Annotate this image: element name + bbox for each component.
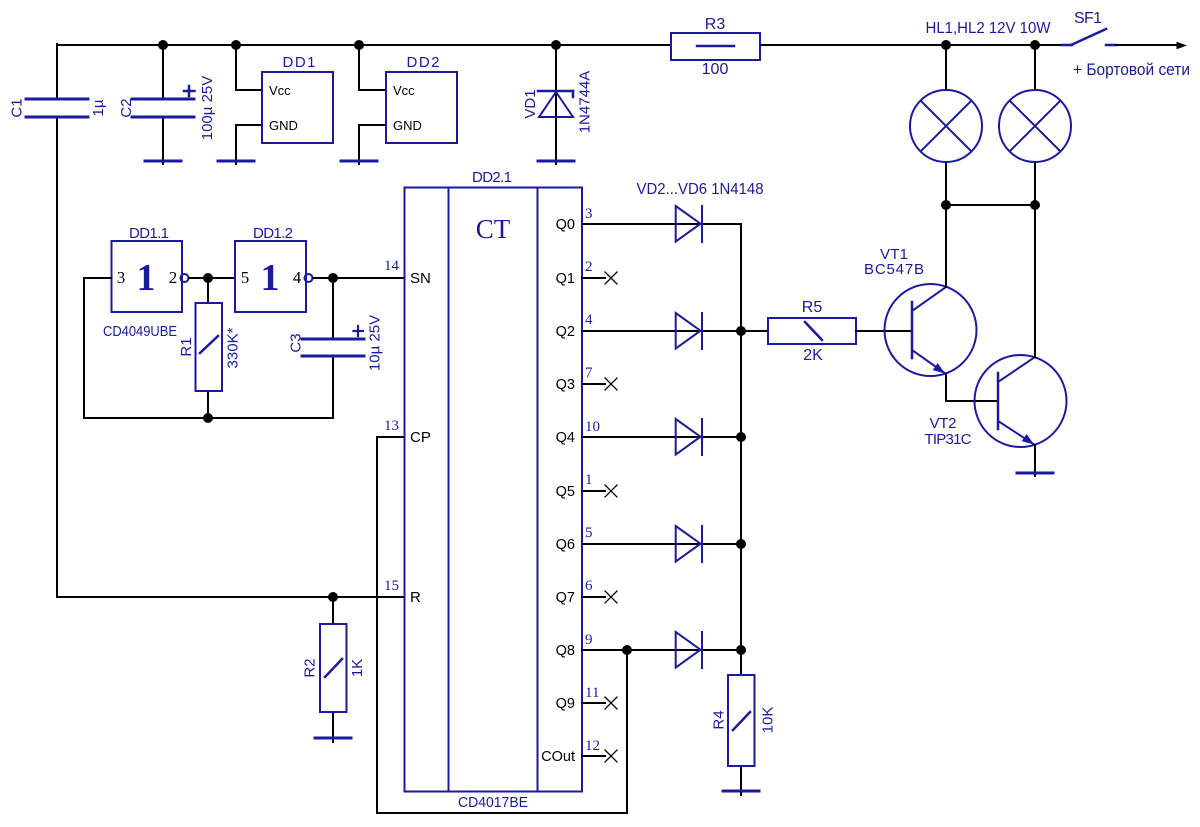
svg-text:Q7: Q7 (556, 590, 575, 606)
node junction C2 top (158, 40, 168, 50)
lamp HL2 (999, 90, 1071, 162)
zener diode VD1 (522, 71, 594, 134)
svg-text:9: 9 (585, 632, 593, 648)
svg-text:R1: R1 (178, 337, 195, 356)
diode VD5 (676, 526, 702, 562)
svg-text:13: 13 (384, 418, 399, 434)
node junction DD2 Vcc (354, 40, 364, 50)
node junction bus Q6 (736, 539, 746, 549)
inverter DD1.1 (103, 225, 189, 340)
node junction bus Q2 (736, 326, 746, 336)
ground (DD2) (341, 160, 377, 163)
wire top rail right (760, 44, 1063, 46)
svg-text:R4: R4 (711, 710, 728, 729)
IC DD2 power box (386, 54, 457, 143)
ground (VT2) (1017, 472, 1053, 475)
node junction lamp tie right (1030, 200, 1040, 210)
capacitor C1 (9, 98, 108, 117)
svg-text:Q9: Q9 (556, 696, 575, 712)
svg-text:12: 12 (585, 738, 600, 754)
wire VT1 collector (945, 205, 947, 287)
wire VT1 emitter to VT2 base (946, 374, 998, 401)
wire R reset rail (57, 596, 405, 598)
node junction bus Q8 (736, 645, 746, 655)
no-connect COut (582, 750, 617, 762)
lamp HL1 (910, 90, 982, 162)
svg-text:100µ 25V: 100µ 25V (199, 76, 216, 141)
capacitor C3 (288, 315, 384, 371)
svg-text:Q5: Q5 (556, 484, 575, 500)
wire left rail lower (56, 117, 58, 597)
svg-text:GND: GND (269, 118, 298, 133)
svg-text:Q0: Q0 (556, 217, 575, 233)
node junction lamp tie left (941, 200, 951, 210)
wire R5 to VT1 base (856, 330, 912, 332)
svg-text:11: 11 (585, 685, 599, 701)
svg-text:HL1,HL2 12V 10W: HL1,HL2 12V 10W (926, 20, 1052, 37)
wire C2 branch (162, 45, 164, 99)
wire R2 leads (332, 597, 334, 624)
wire HL1 branch (945, 45, 947, 90)
node junction DD1 Vcc (231, 40, 241, 50)
resistor R4 (711, 675, 777, 766)
svg-text:DD2: DD2 (407, 54, 440, 71)
no-connect Q5 (582, 485, 617, 497)
resistor R1 (178, 303, 242, 391)
diode VD4 (676, 419, 702, 455)
svg-text:Q4: Q4 (556, 430, 575, 446)
svg-text:CT: CT (476, 214, 511, 244)
svg-text:Vcc: Vcc (269, 83, 291, 98)
wire Q0 to diode bus (582, 223, 741, 225)
svg-text:15: 15 (384, 578, 399, 594)
svg-text:GND: GND (393, 118, 422, 133)
wire R5 left lead (741, 330, 768, 332)
svg-text:VT2: VT2 (930, 415, 957, 432)
svg-text:1K: 1K (349, 659, 366, 677)
wire top rail left (57, 44, 671, 46)
svg-text:Q8: Q8 (556, 643, 575, 659)
resistor R3 (671, 16, 760, 78)
svg-text:CD4049UBE: CD4049UBE (103, 323, 177, 340)
wire DD1.1 input loop (84, 278, 333, 418)
diode VD6 (676, 632, 702, 668)
wire R1 leads (207, 278, 209, 303)
svg-text:R2: R2 (302, 658, 319, 677)
resistor R5 (768, 299, 856, 364)
wire HL2 branch (1034, 45, 1036, 90)
svg-text:DD2.1: DD2.1 (472, 169, 512, 186)
no-connect Q3 (582, 378, 617, 390)
counter DD2.1 (384, 169, 600, 811)
svg-text:C3: C3 (288, 333, 305, 352)
wire Q4 to diode bus (582, 436, 741, 438)
wire DD2 Vcc (359, 45, 386, 90)
svg-text:1: 1 (585, 472, 593, 488)
svg-text:1N4744A: 1N4744A (577, 71, 594, 134)
svg-text:R5: R5 (802, 299, 823, 316)
capacitor C2 (118, 76, 216, 141)
node junction bus Q4 (736, 432, 746, 442)
node junction R1 bottom (203, 413, 213, 423)
ground (VD1) (538, 160, 574, 163)
svg-text:3: 3 (117, 268, 126, 287)
svg-text:2: 2 (169, 268, 178, 287)
svg-text:VD2...VD6 1N4148: VD2...VD6 1N4148 (637, 181, 764, 198)
svg-text:10: 10 (585, 419, 600, 435)
node junction Q8 feedback tap (622, 645, 632, 655)
wire Q8 to diode bus (582, 649, 741, 651)
svg-text:330K*: 330K* (225, 327, 242, 368)
svg-text:4: 4 (293, 268, 302, 287)
inverter DD1.2 (235, 225, 313, 312)
no-connect Q9 (582, 697, 617, 709)
wire lamp bottoms tie (946, 204, 1035, 206)
svg-text:100: 100 (702, 61, 729, 78)
svg-text:1: 1 (137, 257, 156, 299)
svg-text:VD1: VD1 (522, 89, 539, 118)
wire VT2 emitter (1034, 445, 1036, 476)
svg-text:CD4017BE: CD4017BE (458, 794, 528, 811)
node junction VD1 top (551, 40, 561, 50)
svg-text:COut: COut (541, 749, 575, 765)
svg-text:Q1: Q1 (556, 271, 575, 287)
svg-text:5: 5 (585, 525, 593, 541)
svg-text:5: 5 (241, 268, 250, 287)
wire DD1.2 output to SN (313, 277, 405, 279)
svg-text:DD1.2: DD1.2 (253, 225, 293, 242)
node junction R2 top (328, 592, 338, 602)
svg-text:10K: 10K (760, 707, 777, 734)
wire diode bus vertical (740, 224, 742, 675)
wire DD2 GND (359, 125, 386, 164)
svg-text:+ Бортовой сети: + Бортовой сети (1073, 60, 1190, 79)
ground (C2) (145, 160, 181, 163)
ground (R2) (315, 737, 351, 740)
wire DD1 Vcc (236, 45, 262, 90)
svg-text:CP: CP (410, 429, 431, 446)
svg-text:Vcc: Vcc (393, 83, 415, 98)
wire VD1 branch (555, 45, 557, 164)
node junction R1 top (203, 273, 213, 283)
svg-text:DD1.1: DD1.1 (129, 225, 169, 242)
svg-text:6: 6 (585, 578, 593, 594)
svg-text:R3: R3 (705, 16, 726, 33)
svg-text:4: 4 (585, 312, 593, 328)
wire CP feedback loop (377, 437, 627, 813)
ground (DD1) (218, 160, 254, 163)
resistor R2 (302, 624, 367, 712)
svg-text:C2: C2 (118, 98, 135, 117)
wire Q2 to diode bus (582, 330, 741, 332)
no-connect Q7 (582, 591, 617, 603)
svg-text:7: 7 (585, 365, 593, 381)
svg-text:2: 2 (585, 259, 593, 275)
diode VD2 (676, 206, 702, 242)
wire left rail upper (56, 44, 58, 99)
svg-text:1µ: 1µ (90, 99, 107, 116)
svg-text:DD1: DD1 (283, 54, 316, 71)
wire C3 branch (332, 278, 334, 339)
svg-text:R: R (410, 589, 421, 606)
diode VD3 (676, 313, 702, 349)
switch SF1 (1062, 10, 1116, 45)
wire to supply arrow (1116, 44, 1176, 46)
node junction C3 top (328, 273, 338, 283)
transistor VT2 (975, 355, 1067, 447)
svg-text:10µ 25V: 10µ 25V (367, 315, 384, 371)
svg-text:1: 1 (261, 257, 280, 299)
wire VT2 collector (1034, 205, 1036, 357)
node junction HL1 top (941, 40, 951, 50)
svg-text:Q2: Q2 (556, 324, 575, 340)
wire R4 bottom lead (740, 766, 742, 795)
no-connect Q1 (582, 272, 617, 284)
wire DD1.1 output (189, 277, 236, 279)
wire Q6 to diode bus (582, 543, 741, 545)
svg-text:SF1: SF1 (1074, 10, 1102, 27)
svg-text:TIP31C: TIP31C (925, 431, 972, 448)
svg-text:Q6: Q6 (556, 537, 575, 553)
svg-text:C1: C1 (9, 98, 26, 117)
svg-text:BC547B: BC547B (864, 261, 924, 278)
svg-text:SN: SN (410, 270, 431, 287)
svg-text:3: 3 (585, 206, 593, 222)
node junction HL2 top (1030, 40, 1040, 50)
svg-text:14: 14 (384, 258, 400, 274)
svg-text:2K: 2K (803, 347, 823, 364)
IC DD1 power box (262, 54, 333, 143)
ground (R4) (723, 790, 759, 793)
transistor VT1 (885, 284, 977, 376)
svg-text:Q3: Q3 (556, 377, 575, 393)
wire DD1 GND (236, 125, 262, 164)
